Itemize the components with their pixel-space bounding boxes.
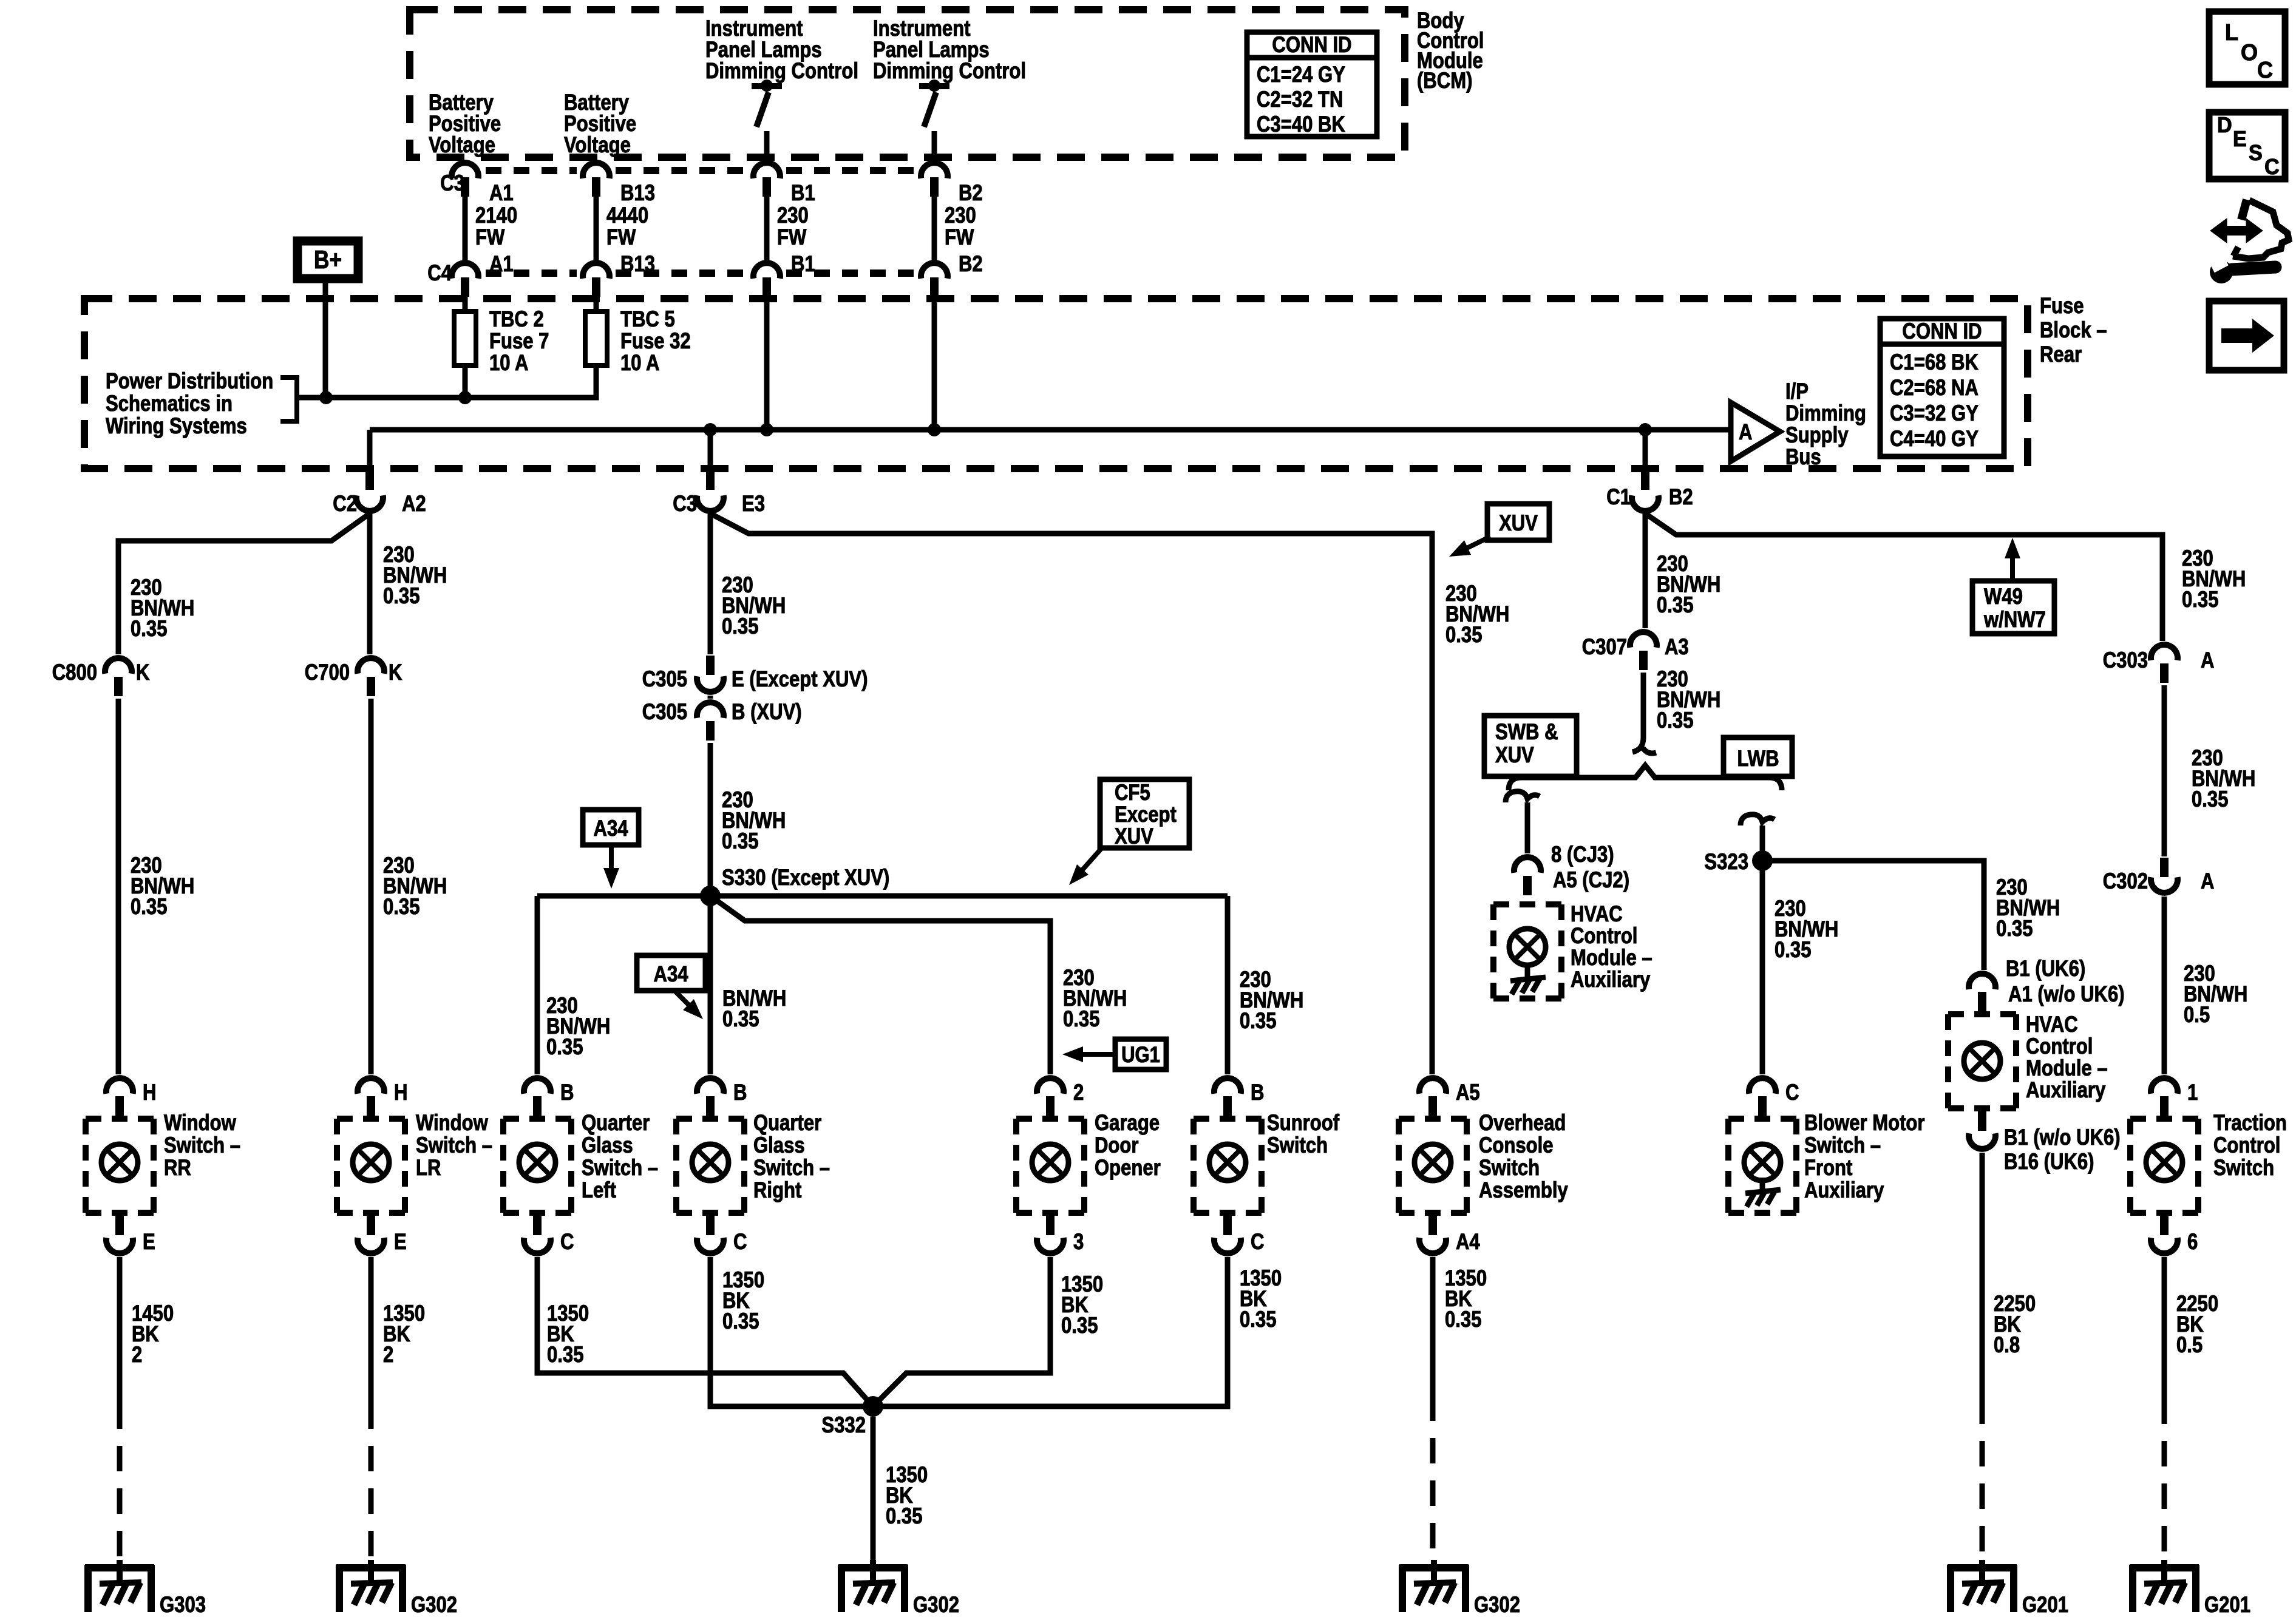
svg-text:K: K <box>389 660 402 685</box>
svg-text:A1: A1 <box>489 181 514 206</box>
svg-text:G302: G302 <box>411 1593 457 1617</box>
junction dot at TBC2 fuse <box>458 391 472 404</box>
fuse block pin B13 connector (row C4) at x=982 <box>583 263 610 279</box>
wire power distribution bus (battery feed) <box>297 365 596 398</box>
LWB callout box <box>1724 737 1792 776</box>
W49 w/NW7 callout box <box>1972 581 2054 634</box>
lamp Overhead Console Switch Assembly <box>1415 1144 1451 1181</box>
svg-text:H: H <box>394 1080 407 1105</box>
svg-text:LWB: LWB <box>1737 747 1779 771</box>
svg-text:UG1: UG1 <box>1121 1043 1160 1068</box>
svg-text:C: C <box>2264 155 2280 179</box>
wire C302 to traction control switch <box>2162 897 2167 1074</box>
connector A1 (HVAC aux right top) <box>1969 974 1995 989</box>
wire S332 to ground <box>871 1417 876 1562</box>
svg-text:8 (CJ3): 8 (CJ3) <box>1551 842 1614 867</box>
A34 callout box (upper) <box>583 810 639 845</box>
svg-text:C700: C700 <box>305 660 350 685</box>
fuse block pin B2 connector (row C4) at x=1539 <box>921 263 948 279</box>
svg-text:C: C <box>1251 1230 1264 1255</box>
svg-text:B2: B2 <box>959 252 983 277</box>
wire I/P dimming supply bus <box>370 427 1731 433</box>
svg-text:1: 1 <box>2187 1080 2198 1105</box>
lamp Traction Control Switch <box>2146 1144 2182 1181</box>
svg-text:A5: A5 <box>1456 1080 1480 1105</box>
icon vehicle location (car with arrow and wrench) <box>2210 200 2289 283</box>
svg-text:G303: G303 <box>160 1593 206 1617</box>
lamp Sunroof Switch <box>1209 1144 1246 1181</box>
wire traction control to ground <box>2162 1257 2167 1398</box>
svg-text:E: E <box>394 1230 407 1255</box>
svg-text:A3: A3 <box>1665 635 1689 660</box>
wire C2/A2 down to C700 <box>367 514 373 654</box>
ground G201 (traction control) <box>2130 1560 2199 1612</box>
module box: Overhead Console Switch Assembly <box>1399 1119 1467 1213</box>
lamp Window Switch - RR <box>101 1144 138 1181</box>
svg-text:A4: A4 <box>1456 1230 1480 1255</box>
connector pin E (bottom) <box>115 1216 124 1235</box>
CF5 callout arrow <box>1078 848 1102 875</box>
svg-text:C303: C303 <box>2103 648 2148 673</box>
svg-text:C1=24 GYC2=32 TNC3=40 BK: C1=24 GYC2=32 TNC3=40 BK <box>1257 63 1345 137</box>
wire branch C3/E3 to overhead console (XUV branch) <box>710 514 1432 1074</box>
dimmer symbol left (instrument panel lamps dimming control) <box>752 80 782 163</box>
module box: HVAC Control Module - Auxiliary (left) <box>1493 904 1561 998</box>
connector C1/B2 (fuse block output) <box>1641 470 1649 490</box>
module box: Quarter Glass Switch - Right <box>676 1119 744 1213</box>
CF5 Except XUV callout box <box>1100 779 1189 848</box>
svg-text:C: C <box>560 1230 574 1255</box>
connector pin C (bottom) <box>1223 1216 1232 1235</box>
svg-text:C2: C2 <box>333 492 357 517</box>
svg-text:2: 2 <box>1073 1080 1084 1105</box>
wire overhead console to ground <box>1430 1257 1436 1395</box>
svg-text:E (Except XUV): E (Except XUV) <box>732 667 868 692</box>
connector pin B (top) <box>697 1078 724 1094</box>
wire S323 to HVAC control module auxiliary (right) <box>1762 861 1984 970</box>
module box: Blower Motor Switch - Front Auxiliary <box>1728 1119 1796 1213</box>
wire C3/E3 down to C305 <box>708 514 713 654</box>
svg-text:S332: S332 <box>821 1413 866 1438</box>
triangle pointer A (I/P Dimming Supply Bus) <box>1731 402 1780 461</box>
internal ground (HVAC aux left) <box>1510 965 1546 994</box>
svg-text:E3: E3 <box>742 492 765 517</box>
CONN ID table (fuse block): C1=68 BK, C2=68 NA, C3=32 GY, C4=40 GY <box>1880 319 2004 456</box>
BCM pin B13 connector (row C3) at x=982 <box>583 163 610 178</box>
connector C302 pin A <box>2160 858 2169 877</box>
ground G302 (S332) <box>838 1560 908 1612</box>
module box: Body Control Module (BCM), dashed <box>410 10 1405 157</box>
wire quarter glass right to S332 <box>710 1257 873 1406</box>
svg-text:A: A <box>1739 420 1752 445</box>
connector C700 pin K <box>358 658 384 674</box>
A34 callout arrow (upper) <box>609 845 614 876</box>
svg-text:B (XUV): B (XUV) <box>732 700 802 725</box>
A34 callout box (lower) <box>637 955 705 991</box>
UG1 callout box <box>1115 1039 1166 1070</box>
connector C307 pin A3 <box>1630 632 1657 648</box>
connector pin B (top) <box>524 1078 551 1094</box>
connector pin H (top) <box>106 1078 133 1094</box>
svg-text:C3: C3 <box>673 492 697 517</box>
bracket for power distribution note <box>280 378 297 421</box>
splice junction S332 <box>863 1396 883 1417</box>
junction dot bus at B2 <box>928 423 941 436</box>
svg-text:A34: A34 <box>593 816 628 841</box>
wire window switch RR to ground <box>117 1257 123 1403</box>
svg-text:B16 (UK6): B16 (UK6) <box>2004 1150 2094 1175</box>
svg-text:B1: B1 <box>791 181 815 206</box>
splice junction S330 <box>700 886 721 906</box>
svg-text:B1 (UK6): B1 (UK6) <box>2006 957 2085 981</box>
junction dot at B+ tap <box>319 391 333 404</box>
module box: HVAC Control Module - Auxiliary (right) <box>1948 1014 2016 1108</box>
connector pin C (bottom) <box>706 1216 715 1235</box>
lamp HVAC control module auxiliary (right) <box>1964 1043 2000 1079</box>
lamp Quarter Glass Switch - Right <box>692 1144 729 1181</box>
icon next-page arrow box <box>2209 301 2284 370</box>
module box: Traction Control Switch <box>2130 1119 2198 1213</box>
ground G302 (overhead console) <box>1399 1560 1469 1612</box>
wire 230 FW from BCM B1 to fuse block <box>764 197 770 263</box>
SWB & XUV callout box <box>1484 716 1577 776</box>
wire C800 to window switch RR <box>116 699 121 1074</box>
wire sunroof switch to S332 <box>873 1257 1228 1406</box>
svg-text:S330 (Except XUV): S330 (Except XUV) <box>722 866 889 890</box>
wire 230 FW from BCM B2 to fuse block <box>932 197 937 263</box>
connector pin A5 (top) <box>1419 1078 1446 1094</box>
fuse block pin A1 connector (row C4) at x=766 <box>452 263 478 279</box>
wire 4440 FW from BCM B13 to fuse block <box>594 197 599 263</box>
connector pin 6 (bottom) <box>2160 1216 2169 1235</box>
svg-text:C302: C302 <box>2103 869 2148 894</box>
junction dot bus at B1 <box>760 423 773 436</box>
branch hook to HVAC control module auxiliary <box>1506 792 1540 821</box>
wire hook to S323 <box>1760 844 1765 861</box>
internal ground (Blower Motor Switch - Front Auxiliary) <box>1745 1178 1781 1207</box>
wire S330 to quarter glass right <box>708 896 713 1074</box>
svg-text:A1 (w/o UK6): A1 (w/o UK6) <box>2008 982 2125 1007</box>
module box: Sunroof Switch <box>1194 1119 1262 1213</box>
svg-text:A5 (CJ2): A5 (CJ2) <box>1553 868 1629 893</box>
connector pin 2 (top) <box>1037 1078 1064 1094</box>
wire quarter glass left to S332 <box>537 1257 873 1406</box>
svg-text:C305: C305 <box>642 667 687 692</box>
module box: Window Switch - LR <box>337 1119 405 1213</box>
svg-text:G302: G302 <box>913 1593 959 1617</box>
wire 2140 FW from BCM A1 to fuse block <box>463 197 468 263</box>
icon LOC box <box>2209 12 2285 84</box>
svg-text:B2: B2 <box>1669 485 1693 510</box>
svg-text:G302: G302 <box>1474 1593 1520 1617</box>
junction dot bus at C1/B2 drop <box>1639 423 1652 436</box>
module box: Window Switch - RR <box>86 1119 154 1213</box>
svg-text:B2: B2 <box>959 181 983 206</box>
connector pin C (top) <box>1749 1078 1776 1094</box>
lamp HVAC control module auxiliary (left) <box>1509 929 1546 965</box>
svg-text:B13: B13 <box>620 181 655 206</box>
ground G303 <box>85 1560 154 1612</box>
svg-text:H: H <box>143 1080 156 1105</box>
connector pin B (top) <box>1214 1078 1241 1094</box>
svg-text:B: B <box>1251 1080 1264 1105</box>
svg-text:C1=68 BKC2=68 NAC3=32 GYC4=40: C1=68 BKC2=68 NAC3=32 GYC4=40 GY <box>1890 350 1978 452</box>
svg-text:C307: C307 <box>1582 635 1627 660</box>
svg-text:XUV: XUV <box>1499 511 1538 536</box>
svg-text:6: 6 <box>2187 1230 2198 1255</box>
svg-text:B1 (w/o UK6): B1 (w/o UK6) <box>2004 1125 2121 1150</box>
icon DESC box <box>2209 112 2285 179</box>
ground G201 (HVAC aux) <box>1948 1560 2017 1612</box>
wire C1/B2 down to C307 <box>1643 514 1648 628</box>
wire S323 to blower motor switch <box>1760 861 1765 1074</box>
svg-text:B1: B1 <box>791 252 815 277</box>
wire S330 horizontal to quarter glass left and sunroof <box>537 893 1228 899</box>
BCM pin B1 connector (row C3) at x=1263 <box>753 163 780 178</box>
svg-text:CONN ID: CONN ID <box>1272 33 1351 58</box>
ground G302 (window switch LR) <box>336 1560 406 1612</box>
svg-text:L: L <box>2225 19 2238 45</box>
svg-text:C800: C800 <box>52 660 97 685</box>
wire end curl at brace <box>1632 737 1656 753</box>
connector 8/A5 (HVAC control module auxiliary) <box>1514 857 1541 873</box>
B+ power feed box <box>297 241 358 279</box>
module box: Quarter Glass Switch - Left <box>503 1119 571 1213</box>
module box: Garage Door Opener <box>1016 1119 1084 1213</box>
connector pin H (top) <box>358 1078 384 1094</box>
wire branch C2 to C800 (left) <box>118 514 370 654</box>
svg-text:A1: A1 <box>489 252 514 277</box>
connector C303 pin A <box>2151 645 2178 660</box>
svg-text:C: C <box>2257 56 2273 83</box>
lamp Blower Motor Switch - Front Auxiliary <box>1744 1144 1781 1181</box>
CONN ID table (BCM): C1=24 GY, C2=32 TN, C3=40 BK <box>1247 32 1377 137</box>
splice junction S323 <box>1752 850 1773 871</box>
XUV callout box <box>1487 504 1549 540</box>
fuse TBC 5 Fuse 32 10 A <box>594 297 599 311</box>
connector pin A4 (bottom) <box>1428 1216 1437 1235</box>
svg-text:G201: G201 <box>2204 1593 2250 1617</box>
svg-text:C: C <box>733 1230 747 1255</box>
wire branch C1 to C303 (right) <box>1645 514 2162 641</box>
svg-text:A: A <box>2201 869 2214 894</box>
UG1 callout arrow <box>1076 1052 1115 1057</box>
connector pin E (bottom) <box>367 1216 375 1235</box>
svg-text:BatteryPositiveVoltage: BatteryPositiveVoltage <box>429 90 501 158</box>
svg-text:C305: C305 <box>642 700 687 725</box>
svg-text:3: 3 <box>1073 1230 1084 1255</box>
connector B1/B16 (HVAC aux right bottom) <box>1978 1111 1986 1131</box>
svg-text:S: S <box>2249 141 2263 165</box>
connector C3/E3 (fuse block output) <box>706 470 715 490</box>
svg-text:CONN ID: CONN ID <box>1902 319 1982 344</box>
wire garage door opener to S332 <box>873 1257 1050 1406</box>
XUV callout arrow <box>1463 537 1490 550</box>
connector pin 3 (bottom) <box>1046 1216 1055 1235</box>
W49 callout arrow <box>2010 551 2015 581</box>
connector C305 pair E (Except XUV) / B (XUV) <box>706 656 715 675</box>
wire B1 output from BCM to I/P dimming bus <box>764 297 770 430</box>
svg-text:E: E <box>2233 127 2247 151</box>
svg-text:A34: A34 <box>653 962 688 987</box>
svg-text:C1: C1 <box>1606 485 1631 510</box>
lamp Garage Door Opener <box>1032 1144 1068 1181</box>
dimmer symbol right (instrument panel lamps dimming control) <box>919 80 949 163</box>
svg-text:K: K <box>136 660 150 685</box>
svg-text:BatteryPositiveVoltage: BatteryPositiveVoltage <box>564 90 636 158</box>
svg-text:230FW: 230FW <box>777 203 809 250</box>
wire B+ to power distribution bus <box>323 279 328 398</box>
wire C303 to C302 <box>2162 685 2167 856</box>
connector pin 1 (top) <box>2151 1078 2178 1094</box>
lamp Quarter Glass Switch - Left <box>519 1144 555 1181</box>
svg-text:A2: A2 <box>402 492 426 517</box>
A34 callout arrow (lower) <box>674 991 694 1010</box>
svg-text:E: E <box>143 1230 155 1255</box>
svg-text:G201: G201 <box>2022 1593 2068 1617</box>
BCM pin B2 connector (row C3) at x=1539 <box>921 163 948 178</box>
wire C700 to window switch LR <box>369 699 374 1074</box>
svg-text:230FW: 230FW <box>945 203 976 250</box>
svg-text:B+: B+ <box>314 246 342 274</box>
connector C2/A2 (fuse block output) <box>365 470 374 490</box>
BCM pin A1 connector (row C3) at x=766 <box>452 163 478 178</box>
module box: Fuse Block - Rear, dashed <box>84 299 2028 469</box>
svg-text:S323: S323 <box>1704 850 1748 875</box>
fuse block pin B1 connector (row C4) at x=1263 <box>753 263 780 279</box>
svg-text:B: B <box>560 1080 574 1105</box>
fuse TBC 2 Fuse 7 10 A <box>463 297 468 311</box>
junction dot bus at C3/E3 drop <box>704 423 717 436</box>
svg-text:D: D <box>2217 113 2232 137</box>
wire hook to HVAC aux connector <box>1525 821 1530 853</box>
harness split brace <box>1509 765 1782 790</box>
lamp Window Switch - LR <box>353 1144 389 1181</box>
connector C800 pin K <box>105 658 132 674</box>
svg-text:B13: B13 <box>620 252 655 277</box>
dashed connector line row C4 (fuse block inputs) <box>486 269 577 277</box>
svg-text:O: O <box>2241 39 2258 65</box>
dashed connector line row C3 (BCM outputs) <box>486 167 577 174</box>
wire S330 to garage door opener <box>710 896 1050 1074</box>
wire C307 to harness split brace <box>1641 673 1646 739</box>
wire C305 to S330 <box>708 743 713 896</box>
connector pin C (bottom) <box>533 1216 542 1235</box>
svg-text:A: A <box>2201 648 2214 673</box>
wire window switch LR to ground <box>369 1257 374 1403</box>
wire HVAC aux right to ground <box>1980 1153 1985 1398</box>
svg-text:B: B <box>733 1080 747 1105</box>
wire B2 output from BCM to I/P dimming bus <box>932 297 937 430</box>
svg-text:C4: C4 <box>427 261 452 286</box>
svg-text:C: C <box>1785 1080 1799 1105</box>
branch hook to S323 <box>1741 815 1775 844</box>
